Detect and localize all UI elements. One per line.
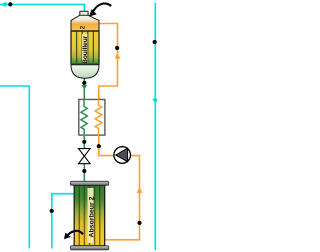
wire: orange pump outlet down to absorber bottom right: [105, 156, 140, 240]
valve V1 on green line: [79, 149, 91, 164]
svg-text:Bouilleur: Bouilleur: [83, 35, 89, 64]
node dot on absorber cyan line: [50, 209, 54, 213]
node dot above valve: [82, 140, 86, 144]
arrowhead green pointing down: [81, 85, 87, 90]
shoulders + upper body: [71, 15, 99, 31]
node dot on orange riser: [115, 46, 119, 50]
annotation arrow into boiler top: [93, 3, 111, 11]
wire: cyan feed line top, left edge to boiler neck: [0, 4, 84, 11]
wire: orange exchanger bottom to pump inlet: [99, 135, 114, 156]
node dot on right cyan line: [153, 40, 157, 44]
wire: cyan vertical at right edge: [154, 3, 156, 251]
node dot below exchanger orange: [97, 144, 101, 148]
arrowhead cyan pointing left at image left edge: [0, 2, 6, 7]
arrowhead cyan pointing down on right line: [152, 99, 158, 104]
wire: cyan elbow to absorber left side: [52, 194, 75, 249]
node dot below valve: [82, 169, 86, 173]
bottom dome: [71, 65, 99, 79]
wire: orange from boiler top right to exchanger: [98, 24, 118, 101]
text column halo: [88, 188, 94, 243]
svg-text:Absorbeur 2: Absorbeur 2: [89, 196, 96, 237]
column C2 Absorbeur 2: [70, 181, 108, 250]
packed section with stripes: [71, 31, 99, 64]
wire: green exchanger to valve to absorber: [83, 135, 85, 182]
text column halo: [82, 34, 87, 63]
node dot on orange down-leg: [137, 221, 141, 225]
bottom flange bar: [70, 246, 108, 250]
body with gradient: [74, 185, 105, 245]
pump P1: [114, 147, 131, 164]
neck: [80, 11, 88, 15]
node dot on top cyan line: [8, 2, 12, 6]
annotation arrow out of absorber bottom: [68, 231, 83, 236]
column C1 Bouilleur 2: [71, 11, 99, 78]
divider line: [71, 30, 99, 32]
arrowhead orange pointing up on down-leg: [137, 187, 143, 193]
heat exchanger hot-side coil (orange zigzag): [95, 99, 102, 135]
arrowhead orange pointing up on riser: [115, 53, 121, 59]
top flange bar: [70, 181, 108, 185]
wire: green boiler bottom outlet: [83, 77, 85, 101]
heat exchanger cold-side coil (green zigzag): [81, 99, 87, 135]
heat exchanger E1 box: [79, 99, 106, 135]
node dot on green line: [82, 81, 86, 85]
wire: cyan elbow mid-left going down: [0, 86, 29, 249]
